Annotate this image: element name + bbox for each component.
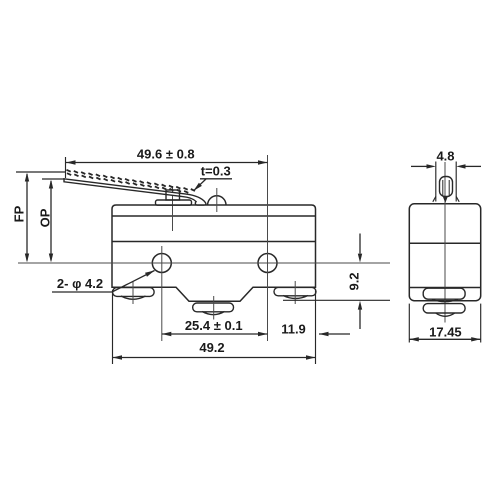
side view terminal screw 1 — [423, 288, 465, 299]
hinge clamp block — [166, 190, 180, 200]
dimension line 49.6 — [66, 162, 268, 164]
terminal screw left — [113, 288, 155, 297]
9.2 dimension arrows — [359, 234, 361, 254]
dimension line 17.45 — [409, 338, 480, 340]
side view divider line 2 — [409, 287, 480, 289]
left hole vertical centerline — [161, 246, 163, 341]
svg-text:t=0.3: t=0.3 — [201, 164, 231, 179]
OP dimension arrow — [50, 181, 52, 261]
OP reference line (operating position) — [42, 178, 65, 180]
dimension line 25.4 — [162, 333, 268, 335]
extension line body left edge — [112, 290, 114, 364]
dimension 49.6 extension line at lever tip — [65, 157, 67, 178]
svg-text:17.45: 17.45 — [429, 325, 462, 340]
right hole vertical centerline and 49.6 extension — [267, 155, 269, 341]
svg-text:49.2: 49.2 — [199, 340, 224, 355]
plunger button front view — [208, 196, 226, 205]
front view body divider line — [112, 241, 316, 243]
FP dimension arrow — [26, 174, 28, 261]
terminal screw middle — [193, 303, 234, 312]
front view top cap line — [112, 215, 316, 217]
mounting hole right — [258, 254, 277, 273]
extension line body right edge — [315, 290, 317, 364]
horizontal centerline through holes — [18, 262, 390, 264]
dimension line 49.2 — [113, 357, 316, 359]
side view body outline — [409, 204, 480, 301]
mounting hole left — [152, 254, 171, 273]
svg-text:49.6 ± 0.8: 49.6 ± 0.8 — [137, 147, 195, 162]
side view plunger housing sides / 4.8 extension lines — [435, 162, 437, 202]
svg-text:4.8: 4.8 — [436, 149, 454, 164]
svg-text:FP: FP — [12, 205, 27, 222]
lever free position (dashed) upper line — [67, 170, 196, 193]
terminal screw right — [274, 287, 316, 295]
side view center axis line — [444, 162, 446, 323]
plunger press direction arrow — [443, 196, 448, 203]
FP reference line (free position) — [16, 171, 66, 173]
t=0.3 underline and leader — [200, 178, 232, 180]
dimension 4.8 — [411, 165, 427, 167]
dimension arrow 11.9 — [319, 333, 350, 335]
plunger feet flares — [433, 197, 459, 202]
plunger front centerline — [216, 188, 218, 212]
side view divider line 1 — [409, 242, 480, 244]
side view terminal screw 2 — [423, 304, 465, 313]
17.45 extension lines — [408, 304, 410, 343]
hinge base plate — [156, 200, 192, 205]
svg-text:11.9: 11.9 — [281, 322, 306, 337]
svg-text:25.4 ± 0.1: 25.4 ± 0.1 — [185, 318, 243, 333]
9.2 lower extension line — [283, 299, 390, 301]
svg-text:9.2: 9.2 — [347, 272, 362, 290]
side view plunger pin barrel — [440, 177, 453, 197]
front view switch body outline — [112, 205, 316, 301]
leader for 2-phi4.2 hole callout — [52, 291, 112, 293]
svg-text:2- φ 4.2: 2- φ 4.2 — [57, 276, 103, 291]
svg-text:OP: OP — [37, 208, 52, 227]
hinge lever (solid, operating position) — [64, 179, 206, 205]
hinge vertical centerline — [172, 186, 174, 231]
